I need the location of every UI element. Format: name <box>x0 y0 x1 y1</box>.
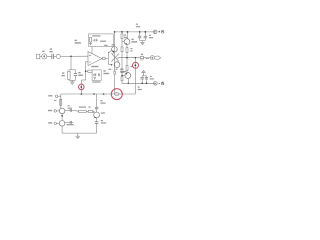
resistor R14 small on emitter line <box>114 71 116 74</box>
wire C2 to node A <box>60 55 88 57</box>
capacitor C6 decoupling <box>144 32 147 41</box>
transistor Q5 <box>59 108 65 114</box>
op-amp U1 <box>88 52 102 66</box>
wire +15 top rail <box>114 31 154 33</box>
transistor Q2 driver lower <box>114 62 120 68</box>
capacitor C9 in box <box>93 73 96 76</box>
label near base column <box>104 45 107 46</box>
wire cap top bar <box>142 75 146 77</box>
red annotation circle small left <box>79 84 85 90</box>
resistor R11 <box>86 110 94 112</box>
wire long vertical collector line <box>114 32 116 94</box>
wire Q2 collector stub <box>115 67 117 69</box>
transistor Q3 power upper <box>124 39 130 45</box>
capacitor C5 decoupling <box>138 32 141 41</box>
wire feedback horizontal rail <box>61 93 136 95</box>
ground <box>70 80 75 84</box>
capacitor C1 <box>52 54 54 59</box>
transistor Q4 power lower <box>125 73 131 79</box>
wire caps to R10 <box>74 109 79 112</box>
capacitor C8 <box>145 76 148 84</box>
wire output vertical to feedback <box>134 58 136 94</box>
wire input to C1 <box>47 55 52 57</box>
resistor R8 emitter lower <box>126 58 128 73</box>
wire output to base column <box>105 57 108 59</box>
capacitor C14 <box>96 118 98 122</box>
ground bottom right inverted <box>141 71 145 76</box>
power port -15 base <box>54 122 59 124</box>
module box lower <box>92 70 101 81</box>
resistor R2 feedback <box>86 70 93 72</box>
wire base Q4 <box>122 75 125 77</box>
node D junction in red circle <box>135 64 137 66</box>
wire op-amp top lead <box>91 46 93 53</box>
wire emitter join to output <box>117 57 120 60</box>
ground in box <box>89 43 92 45</box>
capacitor C2 round <box>56 54 60 58</box>
wire subcircuit right column upper <box>96 94 98 107</box>
resistor R10 220k <box>79 110 87 112</box>
resistor R9 <box>60 99 62 105</box>
wire emitter cross <box>111 53 119 61</box>
wire pulldown top bar <box>69 69 76 71</box>
transistor Q6 <box>59 121 65 127</box>
ground bottom <box>76 133 81 139</box>
wire subcircuit bottom rail <box>62 132 97 134</box>
node junction top rail left <box>114 31 116 33</box>
capacitor C10 in box <box>98 73 99 76</box>
node junction <box>121 31 123 33</box>
capacitor C4 in box <box>93 39 98 42</box>
node B junction <box>80 86 82 88</box>
resistor R1 22k <box>68 70 70 81</box>
wire Q1 emitter stub <box>113 52 114 55</box>
wire output node rail <box>119 57 140 59</box>
wire -15 rail <box>122 82 154 84</box>
wire subcircuit left column <box>60 94 62 109</box>
node A junction <box>70 55 72 57</box>
wire R11 to Q7 base <box>93 111 95 113</box>
wire feedback vertical node B <box>80 80 82 94</box>
wire pulldown bottom bar <box>69 79 76 81</box>
resistor R3 in box <box>90 37 92 43</box>
wire C1 to C2 <box>54 55 57 57</box>
transistor Q1 driver upper <box>112 47 118 53</box>
power -15 port <box>154 82 158 86</box>
wire feedback jog <box>81 79 85 81</box>
wire L1 to output <box>144 57 151 59</box>
capacitor C13 <box>95 107 98 109</box>
capacitor C7 <box>141 76 144 84</box>
resistor R13 column <box>121 77 123 81</box>
ground in box <box>93 78 96 80</box>
IC box U2 <box>89 34 114 47</box>
node C junction <box>85 70 87 72</box>
wire base Q1 diagonal <box>108 50 112 53</box>
connector J1 input jack <box>37 51 47 59</box>
resistor R5 <box>121 32 123 47</box>
fuse F1 in big red circle <box>115 93 120 96</box>
wire cap bottom bar <box>140 40 146 42</box>
ground top right <box>140 41 144 45</box>
connector J2 output <box>150 56 160 60</box>
capacitor C11 <box>65 109 74 112</box>
red annotation circle small right <box>133 62 139 68</box>
inductor L1 with R <box>140 56 143 60</box>
transistor Q7 <box>94 112 100 118</box>
capacitor C3 <box>74 70 77 81</box>
power port subcircuit +15 <box>55 95 60 97</box>
red annotation circle big <box>111 89 122 100</box>
resistor R7 emitter upper <box>126 45 128 58</box>
wire base Q3 <box>122 41 124 43</box>
resistor R12 column <box>121 52 123 69</box>
power +15 port <box>153 30 157 34</box>
capacitor C12 <box>65 121 74 124</box>
wire op-amp minus branch <box>86 62 88 80</box>
wire node A down <box>70 56 72 70</box>
resistor R4 at op-amp output <box>102 57 105 59</box>
wire base column vertical <box>107 52 109 65</box>
resistor R6 <box>121 47 123 52</box>
power port +15 base <box>54 110 59 112</box>
wire Q4 collector <box>127 78 129 83</box>
wire base Q2 diagonal <box>108 64 111 65</box>
